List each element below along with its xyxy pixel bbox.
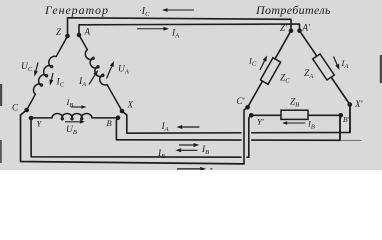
- svg-text:B: B: [107, 118, 112, 128]
- svg-text:Генератор: Генератор: [44, 3, 109, 17]
- svg-text:X: X: [127, 100, 134, 110]
- svg-text:Потребитель: Потребитель: [255, 3, 331, 17]
- svg-text:C: C: [12, 103, 19, 113]
- svg-text:A′: A′: [302, 23, 311, 33]
- svg-text:X′: X′: [354, 99, 363, 109]
- svg-text:Y′: Y′: [257, 117, 264, 127]
- svg-text:B′: B′: [343, 115, 350, 124]
- svg-text:C′: C′: [237, 96, 246, 106]
- svg-text:A: A: [84, 27, 91, 37]
- svg-text:Z′: Z′: [280, 23, 288, 33]
